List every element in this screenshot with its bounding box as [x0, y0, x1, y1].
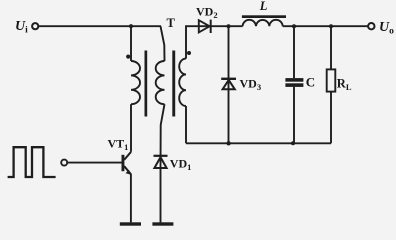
- wire reset winding top lead: [161, 26, 165, 61]
- wire secondary bottom lead: [185, 106, 187, 143]
- svg-text:VT1: VT1: [108, 136, 129, 152]
- wire RL top: [330, 26, 332, 69]
- wire secondary top lead to VD2 anode: [186, 26, 243, 58]
- inductor L winding: [243, 20, 283, 26]
- ground VD1: [152, 222, 173, 225]
- transformer T reset winding: [156, 61, 165, 104]
- transformer T secondary winding: [179, 59, 186, 106]
- svg-text:VD3: VD3: [240, 77, 262, 93]
- transformer core bar right: [172, 51, 175, 117]
- wire primary top lead: [130, 26, 132, 61]
- wire input top rail: [38, 25, 131, 27]
- terminal Ui: [32, 23, 38, 29]
- wire primary bottom lead: [130, 104, 132, 152]
- transformer T primary winding: [131, 61, 140, 104]
- node RL top: [329, 24, 333, 28]
- node C top: [292, 24, 296, 28]
- capacitor C: [285, 78, 303, 82]
- transformer core bar left: [145, 51, 148, 117]
- wire base lead: [67, 162, 122, 164]
- svg-text:RL: RL: [337, 77, 352, 93]
- svg-text:T: T: [167, 16, 176, 30]
- wire emitter to ground: [130, 174, 132, 223]
- svg-text:VD1: VD1: [170, 157, 192, 173]
- node VD3 tap: [227, 24, 231, 28]
- wire VD3 branch: [228, 26, 230, 143]
- node C bottom: [291, 141, 295, 145]
- svg-text:Uo: Uo: [379, 20, 394, 37]
- terminal Uo: [368, 23, 374, 29]
- node VD3 bottom: [226, 141, 230, 145]
- wire VD1 anode to ground: [160, 168, 162, 222]
- polarity dot primary: [126, 55, 130, 59]
- transistor VT1: [122, 155, 125, 171]
- svg-text:Ui: Ui: [15, 19, 28, 36]
- inductor L core bar: [242, 15, 286, 18]
- polarity dot secondary: [187, 51, 191, 55]
- wire reset winding to VD1: [161, 104, 165, 168]
- wire L to output terminal: [283, 25, 368, 27]
- diode VD1: [154, 155, 168, 157]
- wire junction to reset winding: [131, 25, 161, 27]
- resistor RL: [327, 69, 336, 91]
- ground VT1: [120, 222, 141, 225]
- wire RL bottom: [330, 92, 332, 144]
- node input junction: [129, 24, 133, 28]
- terminal drive input: [61, 160, 67, 166]
- svg-text:L: L: [259, 0, 268, 13]
- svg-text:VD2: VD2: [196, 4, 218, 19]
- svg-text:C: C: [306, 75, 315, 90]
- wire C bottom: [293, 87, 295, 143]
- square wave source symbol: [8, 147, 56, 177]
- diode VD3: [221, 78, 236, 80]
- wire bottom rail: [186, 142, 331, 144]
- diode VD2: [199, 20, 210, 32]
- wire C top: [293, 26, 295, 78]
